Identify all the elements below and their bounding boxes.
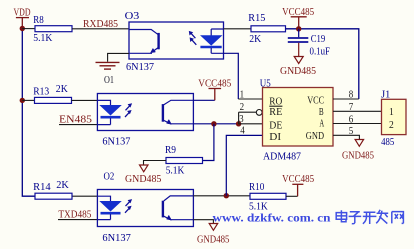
wire pin7 to J1 xyxy=(333,110,382,112)
ground GND485 under C19 xyxy=(280,43,316,77)
wire O3 cathode to pin1 xyxy=(224,53,239,99)
svg-text:VCC: VCC xyxy=(307,95,324,107)
svg-text:4: 4 xyxy=(240,125,245,136)
svg-text:R14: R14 xyxy=(33,181,51,193)
svg-text:6: 6 xyxy=(349,115,354,126)
O3 transistor xyxy=(129,30,158,35)
resistor R9 xyxy=(165,144,203,177)
svg-text:2K: 2K xyxy=(249,33,261,45)
svg-text:3: 3 xyxy=(239,114,244,125)
pin 2 lead with bubble xyxy=(239,111,257,113)
svg-text:www. dzkfw. com. cn: www. dzkfw. com. cn xyxy=(213,211,331,225)
wire R8 to O3 (net RXD485) xyxy=(72,28,129,30)
svg-text:R15: R15 xyxy=(248,12,265,24)
svg-text:2K: 2K xyxy=(56,179,69,191)
svg-text:GND485: GND485 xyxy=(280,65,316,77)
wire pin1 lead xyxy=(238,98,262,100)
O3 LED D xyxy=(211,29,223,36)
O1 light arrows xyxy=(125,106,130,117)
svg-text:2K: 2K xyxy=(56,83,68,95)
svg-text:U5: U5 xyxy=(260,77,271,89)
wire VDD rail xyxy=(22,28,35,197)
power VCC485 bottom xyxy=(282,173,314,196)
svg-text:0.1uF: 0.1uF xyxy=(310,46,331,58)
svg-text:O1: O1 xyxy=(104,74,114,86)
svg-text:7: 7 xyxy=(349,102,354,113)
wire R15 to junction to pin8 xyxy=(286,29,359,99)
svg-text:GND: GND xyxy=(306,130,324,142)
svg-text:485: 485 xyxy=(381,136,394,148)
svg-text:1: 1 xyxy=(240,89,245,100)
wire R8 left xyxy=(22,28,35,30)
svg-text:8: 8 xyxy=(349,90,354,101)
resistor R15 xyxy=(248,12,285,45)
wire O1 collector to VCC485 xyxy=(193,99,214,101)
svg-text:2: 2 xyxy=(240,102,245,113)
svg-text:C19: C19 xyxy=(311,33,326,45)
junction VDD-R13 xyxy=(20,98,25,103)
svg-text:DI: DI xyxy=(269,131,281,143)
svg-text:2: 2 xyxy=(389,119,394,131)
svg-text:A: A xyxy=(319,117,324,129)
O1 LED D xyxy=(97,100,110,105)
O2 light arrows xyxy=(125,202,130,213)
wire EN485 xyxy=(59,124,97,126)
svg-text:RXD485: RXD485 xyxy=(83,18,118,30)
svg-text:GND485: GND485 xyxy=(125,173,162,185)
svg-text:EN485: EN485 xyxy=(59,113,93,125)
wire O2 emitter to GND485 xyxy=(193,220,213,224)
svg-text:6N137: 6N137 xyxy=(102,135,130,147)
ground O1(earth) xyxy=(96,62,120,69)
svg-text:B: B xyxy=(319,106,324,118)
wire R9 left to gnd xyxy=(144,161,167,165)
optocoupler O1 xyxy=(97,94,193,148)
svg-text:R9: R9 xyxy=(165,144,176,156)
wire TXD485 xyxy=(58,219,97,221)
power VDD xyxy=(14,7,31,28)
O2 transistor xyxy=(164,196,194,201)
wire R14 right to O2 xyxy=(72,195,97,197)
svg-text:J1: J1 xyxy=(381,89,390,101)
junction DE-RE xyxy=(236,121,241,126)
svg-text:R8: R8 xyxy=(33,14,44,26)
wire O1 emitter to DE xyxy=(193,123,238,125)
ground GND485 at O2 xyxy=(197,224,230,246)
wire pin3 lead xyxy=(239,123,263,125)
wire DI vertical xyxy=(226,135,262,195)
O2 LED D xyxy=(97,196,110,201)
connector J1 xyxy=(381,89,406,148)
O1 transistor xyxy=(164,100,194,105)
resistor R10 xyxy=(249,181,286,213)
svg-text:5.1K: 5.1K xyxy=(33,32,52,44)
wire R13 left xyxy=(22,99,34,101)
svg-text:5: 5 xyxy=(349,126,354,137)
svg-text:ADM487: ADM487 xyxy=(263,151,301,163)
ground GND485 at pin5 xyxy=(342,140,374,162)
svg-text:VDD: VDD xyxy=(14,7,31,19)
svg-text:R13: R13 xyxy=(33,85,49,97)
power VCC485 mid xyxy=(198,77,231,100)
svg-text:VCC485: VCC485 xyxy=(282,173,314,185)
svg-text:1: 1 xyxy=(389,106,394,118)
svg-text:O2: O2 xyxy=(104,170,115,182)
junction R15/VCC485/C19 xyxy=(296,26,301,31)
svg-text:6N137: 6N137 xyxy=(126,61,154,73)
capacitor C19 xyxy=(288,29,330,58)
junction DE-R9 xyxy=(211,121,216,126)
optocoupler O2 xyxy=(97,170,193,244)
wire DE junction down to R9 xyxy=(203,124,214,161)
wire O3 anode to R15 xyxy=(224,28,252,30)
svg-text:R10: R10 xyxy=(249,181,265,193)
svg-text:GND485: GND485 xyxy=(197,233,230,245)
svg-text:GND485: GND485 xyxy=(342,150,374,162)
optocoupler O3 xyxy=(125,10,224,73)
resistor R14 xyxy=(33,179,72,199)
wire pin5 lead xyxy=(333,135,359,139)
svg-text:O3: O3 xyxy=(125,10,140,22)
junction DI-R10 xyxy=(224,193,229,198)
power VCC485 top xyxy=(282,6,314,27)
wire R10 right to VCC485 xyxy=(286,195,298,197)
O3 light arrows xyxy=(191,33,197,45)
wire pin8 lead xyxy=(333,98,359,100)
wire O3 emitter to ground xyxy=(108,53,129,61)
ground GND485 at R9 xyxy=(125,165,162,185)
wire pin6 to J1 xyxy=(333,123,382,125)
wire R13 to O1 xyxy=(72,99,98,101)
svg-text:VCC485: VCC485 xyxy=(198,77,231,89)
resistor R13 xyxy=(33,83,71,104)
junction VDD-R8 xyxy=(20,26,25,31)
IC U5 ADM487 xyxy=(260,77,333,162)
svg-text:DE: DE xyxy=(269,120,282,132)
resistor R8 xyxy=(33,14,72,44)
svg-text:6N137: 6N137 xyxy=(102,232,131,244)
wire O2 collector to DI junction and R10 xyxy=(193,195,250,197)
svg-text:TXD485: TXD485 xyxy=(58,208,91,220)
svg-text:5.1K: 5.1K xyxy=(166,165,185,177)
svg-text:RE: RE xyxy=(269,106,282,118)
watermark 电子开发网 (drawn) xyxy=(336,210,403,224)
